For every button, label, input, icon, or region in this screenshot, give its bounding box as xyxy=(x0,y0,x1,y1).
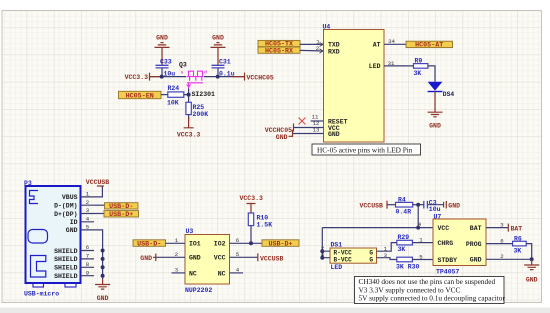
wire GND/shield bus xyxy=(94,230,103,279)
svg-text:RXD: RXD xyxy=(328,48,340,55)
svg-text:IO2: IO2 xyxy=(214,241,226,248)
svg-text:G: G xyxy=(369,256,373,263)
resistor R9 3K xyxy=(414,57,428,76)
svg-text:DS4: DS4 xyxy=(443,91,455,98)
svg-text:C31: C31 xyxy=(219,58,231,65)
svg-text:4: 4 xyxy=(86,215,90,222)
svg-text:VCCUSB: VCCUSB xyxy=(360,203,384,210)
svg-text:5: 5 xyxy=(419,253,423,260)
svg-text:1: 1 xyxy=(419,236,423,243)
svg-text:4: 4 xyxy=(418,221,422,228)
svg-text:s: s xyxy=(181,71,184,76)
svg-text:31: 31 xyxy=(388,60,395,67)
resistor R25 200K xyxy=(186,102,208,118)
svg-text:VCC3.3: VCC3.3 xyxy=(240,195,264,202)
svg-text:5: 5 xyxy=(236,251,240,258)
ground (below R6) xyxy=(524,259,539,283)
power port VCC3.3 (left) xyxy=(125,73,150,81)
svg-text:PROG: PROG xyxy=(466,241,482,248)
node DS1 pin4 xyxy=(320,256,324,260)
svg-text:BAT: BAT xyxy=(511,225,523,232)
svg-text:5: 5 xyxy=(86,224,90,231)
wire TX to pin 1 xyxy=(300,43,324,45)
pin 11 RESET stub with no-connect X xyxy=(299,113,324,124)
svg-text:4: 4 xyxy=(236,267,240,274)
power port VCCUSB (at U3 pin5) xyxy=(258,253,284,262)
wire down to DS1 anodes xyxy=(321,228,323,258)
LED DS4 xyxy=(428,82,455,98)
ground (below P3) xyxy=(95,285,110,303)
svg-text:3K R30: 3K R30 xyxy=(396,263,420,270)
node junction at pin4 xyxy=(416,226,420,230)
svg-text:2: 2 xyxy=(86,199,90,206)
svg-text:R-VCC: R-VCC xyxy=(334,249,353,256)
svg-text:R9: R9 xyxy=(415,57,423,64)
svg-text:G: G xyxy=(369,249,373,256)
wire R9 to DS4 xyxy=(428,66,435,82)
wire R29 to CHRG xyxy=(412,242,433,244)
wire GND pin2 xyxy=(486,258,532,260)
svg-text:NUP2202: NUP2202 xyxy=(185,287,212,294)
DS1 right pin stubs xyxy=(377,251,385,258)
svg-text:R6: R6 xyxy=(514,235,522,242)
svg-text:GND: GND xyxy=(156,35,168,42)
LED DS1 (bi-color) body xyxy=(330,241,377,271)
svg-text:HC05-AT: HC05-AT xyxy=(415,42,443,50)
USB glyph bottom xyxy=(31,256,46,278)
svg-text:GND: GND xyxy=(140,255,152,262)
svg-text:d: d xyxy=(204,70,207,76)
svg-text:VCCHC05: VCCHC05 xyxy=(265,127,292,134)
svg-text:2: 2 xyxy=(316,45,320,52)
svg-text:3K: 3K xyxy=(514,247,522,254)
node junction gate/R24/R25 xyxy=(187,93,191,97)
svg-text:3: 3 xyxy=(86,207,90,214)
svg-text:HC05-RX: HC05-RX xyxy=(265,47,294,55)
resistor R30 3K xyxy=(396,257,420,270)
wire DS4 to GND xyxy=(434,92,436,113)
power port GND (right of C3) xyxy=(444,201,461,210)
svg-text:VCCHC05: VCCHC05 xyxy=(247,74,274,81)
svg-text:Q3: Q3 xyxy=(179,61,187,68)
svg-text:D-(DM): D-(DM) xyxy=(54,203,77,210)
svg-text:SHIELD: SHIELD xyxy=(54,265,78,272)
IC U3 NUP2202 body xyxy=(185,228,230,294)
svg-text:GND: GND xyxy=(212,35,224,42)
node shield 6 xyxy=(101,249,105,253)
svg-text:NC: NC xyxy=(218,270,226,277)
wire pin 31 LED to R9 xyxy=(384,65,414,67)
svg-text:BAT: BAT xyxy=(470,225,482,232)
wire R30 to STDBY xyxy=(412,259,433,261)
pin stubs 1-9 xyxy=(81,197,95,276)
svg-text:SHIELD: SHIELD xyxy=(54,273,78,280)
svg-text:USB-micro: USB-micro xyxy=(24,291,59,298)
pin 3 NC stub xyxy=(172,272,186,274)
svg-text:4: 4 xyxy=(321,251,325,258)
svg-text:5V supply connected to 0.1u de: 5V supply connected to 0.1u decoupling c… xyxy=(359,294,506,303)
port HC05-EN xyxy=(119,91,162,100)
wire port to pin1 xyxy=(166,242,186,244)
pin names xyxy=(54,194,78,280)
svg-text:200K: 200K xyxy=(193,111,209,118)
wire port to R24 xyxy=(161,94,168,96)
svg-text:R4: R4 xyxy=(398,197,406,204)
wire R6 down to GND net xyxy=(526,244,532,260)
svg-text:AT: AT xyxy=(373,42,381,49)
svg-text:1.5K: 1.5K xyxy=(257,221,273,228)
resistor R10 1.5K xyxy=(248,213,272,228)
svg-text:0.4R: 0.4R xyxy=(396,208,412,215)
wire pin6 to USB-D+ xyxy=(230,242,263,244)
ground (below DS4) xyxy=(428,112,443,130)
svg-text:IO1: IO1 xyxy=(189,241,201,248)
power port VCCHC05 (right of rail) xyxy=(245,73,274,82)
wire pin 34 AT xyxy=(384,43,406,45)
power port VCC3.3 (above R10) xyxy=(240,195,264,213)
svg-text:VBUS: VBUS xyxy=(62,194,78,201)
svg-text:VCCUSB: VCCUSB xyxy=(260,256,284,263)
wire RX to pin 2 xyxy=(300,49,324,52)
svg-text:B-VCC: B-VCC xyxy=(334,256,353,263)
wire VCC3.3 rail xyxy=(150,76,187,78)
power port VCCUSB (at R4) xyxy=(360,201,388,210)
svg-text:34: 34 xyxy=(388,38,395,45)
svg-text:GND: GND xyxy=(526,277,538,284)
node junction at C31 xyxy=(216,75,220,79)
svg-text:2: 2 xyxy=(175,251,179,258)
svg-text:USB-D+: USB-D+ xyxy=(109,211,133,219)
wire DS1 G to R30 xyxy=(384,258,397,260)
svg-text:SI2301: SI2301 xyxy=(192,91,216,98)
svg-text:VCC3.3: VCC3.3 xyxy=(177,131,201,138)
wire R10 to junction xyxy=(250,226,252,244)
resistor R4 0.4R xyxy=(396,197,413,216)
wire pin3 to port xyxy=(94,213,104,215)
power port GND (at U3 pin2) xyxy=(140,251,185,262)
svg-text:R29: R29 xyxy=(398,234,410,241)
node junction at C33 xyxy=(160,75,164,79)
svg-text:D+(DP): D+(DP) xyxy=(54,211,77,218)
svg-text:TP4057: TP4057 xyxy=(436,269,460,276)
wire R24 to gate node xyxy=(184,89,189,103)
power GND (above C31) xyxy=(211,35,226,66)
IC U7 TP4057 body xyxy=(433,213,486,275)
svg-text:HC05-EN: HC05-EN xyxy=(126,92,154,100)
wire pin1 to VCCUSB xyxy=(94,186,102,197)
capacitor C3 10u xyxy=(424,199,441,213)
svg-text:6: 6 xyxy=(86,244,90,251)
svg-text:DS1: DS1 xyxy=(331,241,343,248)
node shield 7 xyxy=(101,257,105,261)
svg-text:3K: 3K xyxy=(414,70,422,77)
DS1 left pin stubs xyxy=(322,251,330,258)
wire drain rail to VCCHC05 xyxy=(204,76,245,78)
capacitor C33 10u xyxy=(156,58,176,77)
capacitor C31 0.1u xyxy=(212,58,235,77)
svg-text:VCC: VCC xyxy=(438,225,450,232)
svg-text:ID: ID xyxy=(70,219,78,226)
wire BAT pin3 xyxy=(486,227,508,229)
svg-text:6: 6 xyxy=(236,237,240,244)
svg-text:3: 3 xyxy=(500,221,504,228)
svg-text:GND: GND xyxy=(448,203,460,210)
power port VCC3.3 (bottom) xyxy=(177,118,201,139)
svg-text:VCCUSB: VCCUSB xyxy=(86,179,110,186)
svg-text:SHIELD: SHIELD xyxy=(54,248,78,255)
port HC05-AT xyxy=(406,41,453,49)
port HC05-RX xyxy=(258,47,300,55)
port USB-D- (at U3 pin1) xyxy=(133,240,166,249)
svg-text:VCC3.3: VCC3.3 xyxy=(125,74,149,81)
svg-text:8: 8 xyxy=(86,261,90,268)
note box (3 lines) xyxy=(355,277,506,304)
svg-text:3K: 3K xyxy=(398,246,406,253)
power GND (above C33) xyxy=(155,35,170,66)
port USB-D+ xyxy=(104,211,139,220)
svg-text:USB-D-: USB-D- xyxy=(137,240,161,248)
wire pin5 to VCCUSB xyxy=(230,256,258,258)
resistor R24 10K xyxy=(167,85,184,106)
power port VCCUSB (above P3) xyxy=(86,179,110,186)
svg-text:2: 2 xyxy=(500,253,504,260)
svg-text:NC: NC xyxy=(189,270,197,277)
svg-text:VCC: VCC xyxy=(214,255,226,262)
wire VCC net down and across xyxy=(322,205,433,228)
svg-text:LED: LED xyxy=(331,264,343,271)
bottom window strip xyxy=(0,308,550,313)
power port BAT xyxy=(508,224,522,233)
svg-text:CHRG: CHRG xyxy=(438,240,454,247)
op IC U4 HC-05 body xyxy=(323,23,385,142)
svg-text:GND: GND xyxy=(66,227,78,234)
wire DS1 G to R29 xyxy=(384,243,397,252)
port USB-D- xyxy=(105,203,139,211)
node shield 8 xyxy=(101,265,105,269)
port USB-D+ (at U3 pin6) xyxy=(262,240,299,249)
svg-text:USB-D+: USB-D+ xyxy=(268,240,292,248)
wire PROG pin6 to R6 xyxy=(486,243,513,245)
resistor R29 3K xyxy=(397,234,413,253)
USB glyph middle slot xyxy=(28,230,48,244)
svg-text:GND: GND xyxy=(276,134,288,141)
node junction GND xyxy=(530,257,534,261)
pin 4 NC stub xyxy=(230,272,244,274)
wire VCCUSB to R4 xyxy=(387,204,396,206)
wire pin2 to port xyxy=(94,204,105,206)
svg-text:9: 9 xyxy=(86,269,90,276)
pin numbers 1-9 xyxy=(86,191,90,277)
svg-text:3: 3 xyxy=(175,267,179,274)
wire R25 to VCC3.3 xyxy=(188,115,190,121)
wire R4 to C3 xyxy=(413,204,424,206)
mounting tab left xyxy=(33,283,44,287)
svg-text:1: 1 xyxy=(86,191,90,198)
power port GND at pin 13 xyxy=(276,126,324,141)
svg-text:SHIELD: SHIELD xyxy=(54,256,78,263)
USB glyph top xyxy=(30,191,39,204)
svg-text:C33: C33 xyxy=(160,58,172,65)
wire C3 to GND xyxy=(427,204,443,206)
svg-text:7: 7 xyxy=(86,253,89,260)
svg-text:1: 1 xyxy=(175,237,179,244)
caption box "HC-05 active pins with LED Pin" xyxy=(312,144,421,155)
svg-text:U3: U3 xyxy=(186,228,194,235)
node shield 9 xyxy=(101,274,105,278)
svg-text:10u: 10u xyxy=(429,206,441,213)
resistor R6 3K xyxy=(513,235,527,254)
power port VCCHC05 at pin 12 xyxy=(265,120,324,134)
svg-text:GND: GND xyxy=(189,255,201,262)
svg-text:HC-05 active pins with LED Pin: HC-05 active pins with LED Pin xyxy=(317,145,413,154)
svg-text:STDBY: STDBY xyxy=(438,257,458,264)
svg-text:R24: R24 xyxy=(168,85,180,92)
svg-text:GND: GND xyxy=(328,131,340,138)
svg-text:6: 6 xyxy=(500,237,504,244)
svg-text:10K: 10K xyxy=(167,99,179,106)
svg-text:USB-D-: USB-D- xyxy=(109,203,133,211)
transistor Q3 SI2301 (P-MOSFET, magenta) xyxy=(179,61,207,88)
mounting tab right xyxy=(65,283,76,287)
svg-text:GND: GND xyxy=(97,295,109,302)
node junction R10 xyxy=(249,241,253,245)
connector P3 USB-micro body xyxy=(24,180,81,298)
node DS1 pin2 xyxy=(320,249,324,253)
svg-text:13: 13 xyxy=(313,126,320,133)
port HC05-TX xyxy=(258,40,300,48)
svg-text:GND: GND xyxy=(470,257,482,264)
svg-text:LED: LED xyxy=(369,63,381,70)
node junction VCC xyxy=(416,203,420,207)
svg-text:GND: GND xyxy=(429,123,441,130)
